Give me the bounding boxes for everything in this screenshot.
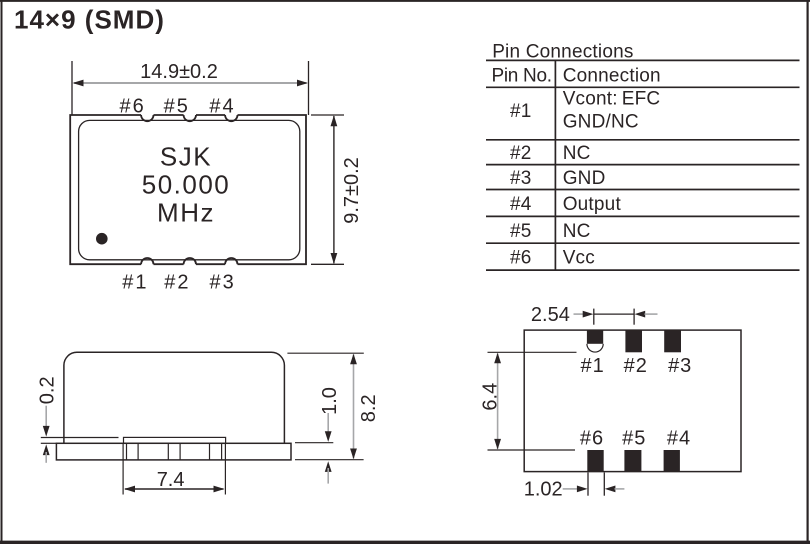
dimension 2.54 right leader	[645, 313, 658, 315]
dimension 0.2 arrowhead up	[43, 444, 50, 455]
dimension 8.2 line	[353, 355, 355, 459]
svg-text:SJK: SJK	[160, 141, 212, 171]
svg-text:8.2: 8.2	[358, 394, 380, 422]
svg-text:GND/NC: GND/NC	[563, 111, 639, 132]
footprint pad #6	[587, 450, 603, 472]
svg-text:Vcont: EFC: Vcont: EFC	[563, 89, 661, 110]
svg-text:#2: #2	[164, 271, 190, 293]
footprint pad #5	[624, 450, 641, 472]
top edge notch at pin 4	[225, 115, 237, 121]
svg-text:9.7±0.2: 9.7±0.2	[341, 157, 363, 224]
dimension 7.4 arrowhead right	[214, 486, 225, 493]
svg-text:14×9 (SMD): 14×9 (SMD)	[14, 5, 165, 35]
top edge notch at pin 6	[141, 115, 153, 121]
dimension 6.4 extension line top	[488, 351, 577, 353]
table line under row 6	[486, 269, 800, 271]
svg-text:Vcc: Vcc	[563, 248, 595, 269]
dimension 1.0 extension line	[295, 442, 333, 444]
dimension 0.2 arrowhead down	[43, 426, 50, 437]
top view outer package outline with castellation notches	[70, 115, 306, 264]
svg-text:14.9±0.2: 14.9±0.2	[140, 61, 218, 83]
svg-text:#5: #5	[622, 428, 646, 450]
footprint pad #2	[625, 330, 642, 352]
top view inner rounded lid outline	[79, 120, 300, 259]
footprint body outline	[524, 330, 741, 472]
svg-text:NC: NC	[563, 143, 591, 164]
dimension 8.2 arrowhead bottom	[350, 449, 357, 460]
dimension 9.7 arrowhead top	[331, 115, 338, 126]
svg-text:1.0: 1.0	[319, 387, 341, 415]
svg-text:6.4: 6.4	[480, 383, 502, 411]
svg-text:#4: #4	[510, 194, 532, 215]
svg-text:#3: #3	[668, 355, 692, 377]
svg-text:GND: GND	[563, 168, 606, 189]
side view can outline	[64, 352, 285, 443]
table line under row 4	[486, 215, 800, 217]
dimension 1.02 left leader	[563, 488, 578, 490]
dimension 7.4 extension line right	[224, 444, 226, 495]
table line under title	[486, 59, 800, 61]
pad #1 index notch half-disc	[587, 344, 603, 352]
svg-text:NC: NC	[563, 221, 591, 242]
svg-text:#3: #3	[510, 168, 532, 189]
dimension 8.2 arrowhead top	[350, 354, 357, 365]
castellation divider lines in base	[127, 443, 222, 460]
svg-text:0.2: 0.2	[37, 376, 59, 404]
svg-text:#2: #2	[624, 355, 648, 377]
dimension 0.2 lower leader line	[45, 452, 47, 463]
svg-text:Pin Connections: Pin Connections	[492, 41, 633, 62]
dimension 2.54 right arrowhead	[635, 311, 646, 318]
svg-text:50.000: 50.000	[142, 169, 231, 199]
dimension 2.54 line between ticks	[594, 313, 634, 315]
svg-text:#6: #6	[580, 428, 604, 450]
dimension 0.2 upper leader line	[45, 406, 47, 428]
svg-text:#6: #6	[119, 95, 145, 117]
dimension 9.7 extension line bottom	[311, 263, 344, 265]
dimension 7.4 arrowhead left	[124, 486, 135, 493]
dimension 14.9 line	[74, 82, 307, 84]
table line under row 5	[486, 242, 800, 244]
table column divider	[554, 60, 556, 270]
dimension 6.4 arrowhead bottom	[494, 439, 501, 450]
footprint pad #3	[664, 330, 681, 352]
dimension 9.7 arrowhead bottom	[331, 253, 338, 264]
dimension 8.2 extension line top	[287, 352, 363, 354]
dimension 14.9 extension line right	[308, 61, 310, 115]
table line under row 3	[486, 189, 800, 191]
dimension 1.0 lower leader line	[327, 468, 329, 484]
dimension 2.54 tick right	[633, 309, 635, 325]
dimension 1.02 tick left	[587, 473, 589, 496]
svg-text:#5: #5	[510, 221, 532, 242]
svg-text:#5: #5	[164, 95, 190, 117]
svg-text:1.02: 1.02	[524, 478, 563, 500]
table line under row 1	[486, 139, 800, 141]
svg-text:#3: #3	[209, 271, 235, 293]
svg-text:MHz: MHz	[157, 197, 215, 227]
dimension 0.2 extension line (base top, left of base)	[41, 442, 57, 444]
dimension 14.9 arrowhead left	[73, 80, 84, 87]
svg-text:#2: #2	[510, 143, 532, 164]
dimension 1.0 arrowhead up (below base)	[325, 461, 332, 472]
table line under header	[486, 86, 800, 88]
side view lid rim strip	[124, 437, 226, 443]
dimension 1.02 left arrowhead	[577, 486, 588, 493]
table line under row 2	[486, 164, 800, 166]
dimension 1.02 right arrowhead	[605, 486, 616, 493]
pin 1 index dot	[96, 233, 108, 245]
svg-text:Output: Output	[563, 194, 622, 215]
top edge notch at pin 5	[184, 115, 196, 121]
dimension 6.4 arrowhead top	[494, 353, 501, 364]
side view base plate	[56, 443, 291, 460]
dimension 7.4 extension line left	[122, 444, 124, 495]
dimension 14.9 extension line left	[71, 61, 73, 115]
dimension 6.4 line	[497, 354, 499, 449]
svg-text:#6: #6	[510, 248, 532, 269]
svg-text:2.54: 2.54	[531, 304, 570, 326]
dimension 8.2 extension line bottom	[295, 459, 364, 461]
bottom edge notch at pin 2	[184, 258, 196, 264]
dimension 2.54 tick left	[593, 309, 595, 325]
dimension 14.9 arrowhead right	[297, 80, 308, 87]
dimension 1.02 right leader	[615, 488, 625, 490]
dimension 2.54 left arrowhead	[583, 311, 594, 318]
bottom edge notch at pin 3	[225, 258, 237, 264]
dimension 9.7 line	[333, 116, 335, 263]
svg-text:Pin No.: Pin No.	[492, 65, 552, 86]
dimension 6.4 extension line bottom	[488, 449, 576, 451]
dimension 1.0 arrowhead down	[325, 431, 332, 442]
dimension 9.7 extension line top	[311, 114, 344, 116]
dimension 2.54 left leader	[574, 313, 585, 315]
footprint pad #1	[587, 330, 603, 344]
svg-text:#4: #4	[667, 428, 691, 450]
dimension 0.2 extension line (strip top)	[41, 437, 119, 439]
dimension 7.4 line	[125, 488, 223, 490]
svg-text:#1: #1	[580, 355, 604, 377]
dimension 1.0 upper leader line	[327, 413, 329, 433]
svg-text:7.4: 7.4	[157, 469, 185, 491]
svg-text:Connection: Connection	[563, 65, 661, 86]
dimension 1.02 tick right	[603, 473, 605, 496]
footprint pad #4	[664, 450, 680, 472]
svg-text:#1: #1	[122, 271, 148, 293]
bottom edge notch at pin 1	[141, 258, 153, 264]
svg-text:#1: #1	[510, 101, 532, 122]
svg-text:#4: #4	[209, 95, 235, 117]
